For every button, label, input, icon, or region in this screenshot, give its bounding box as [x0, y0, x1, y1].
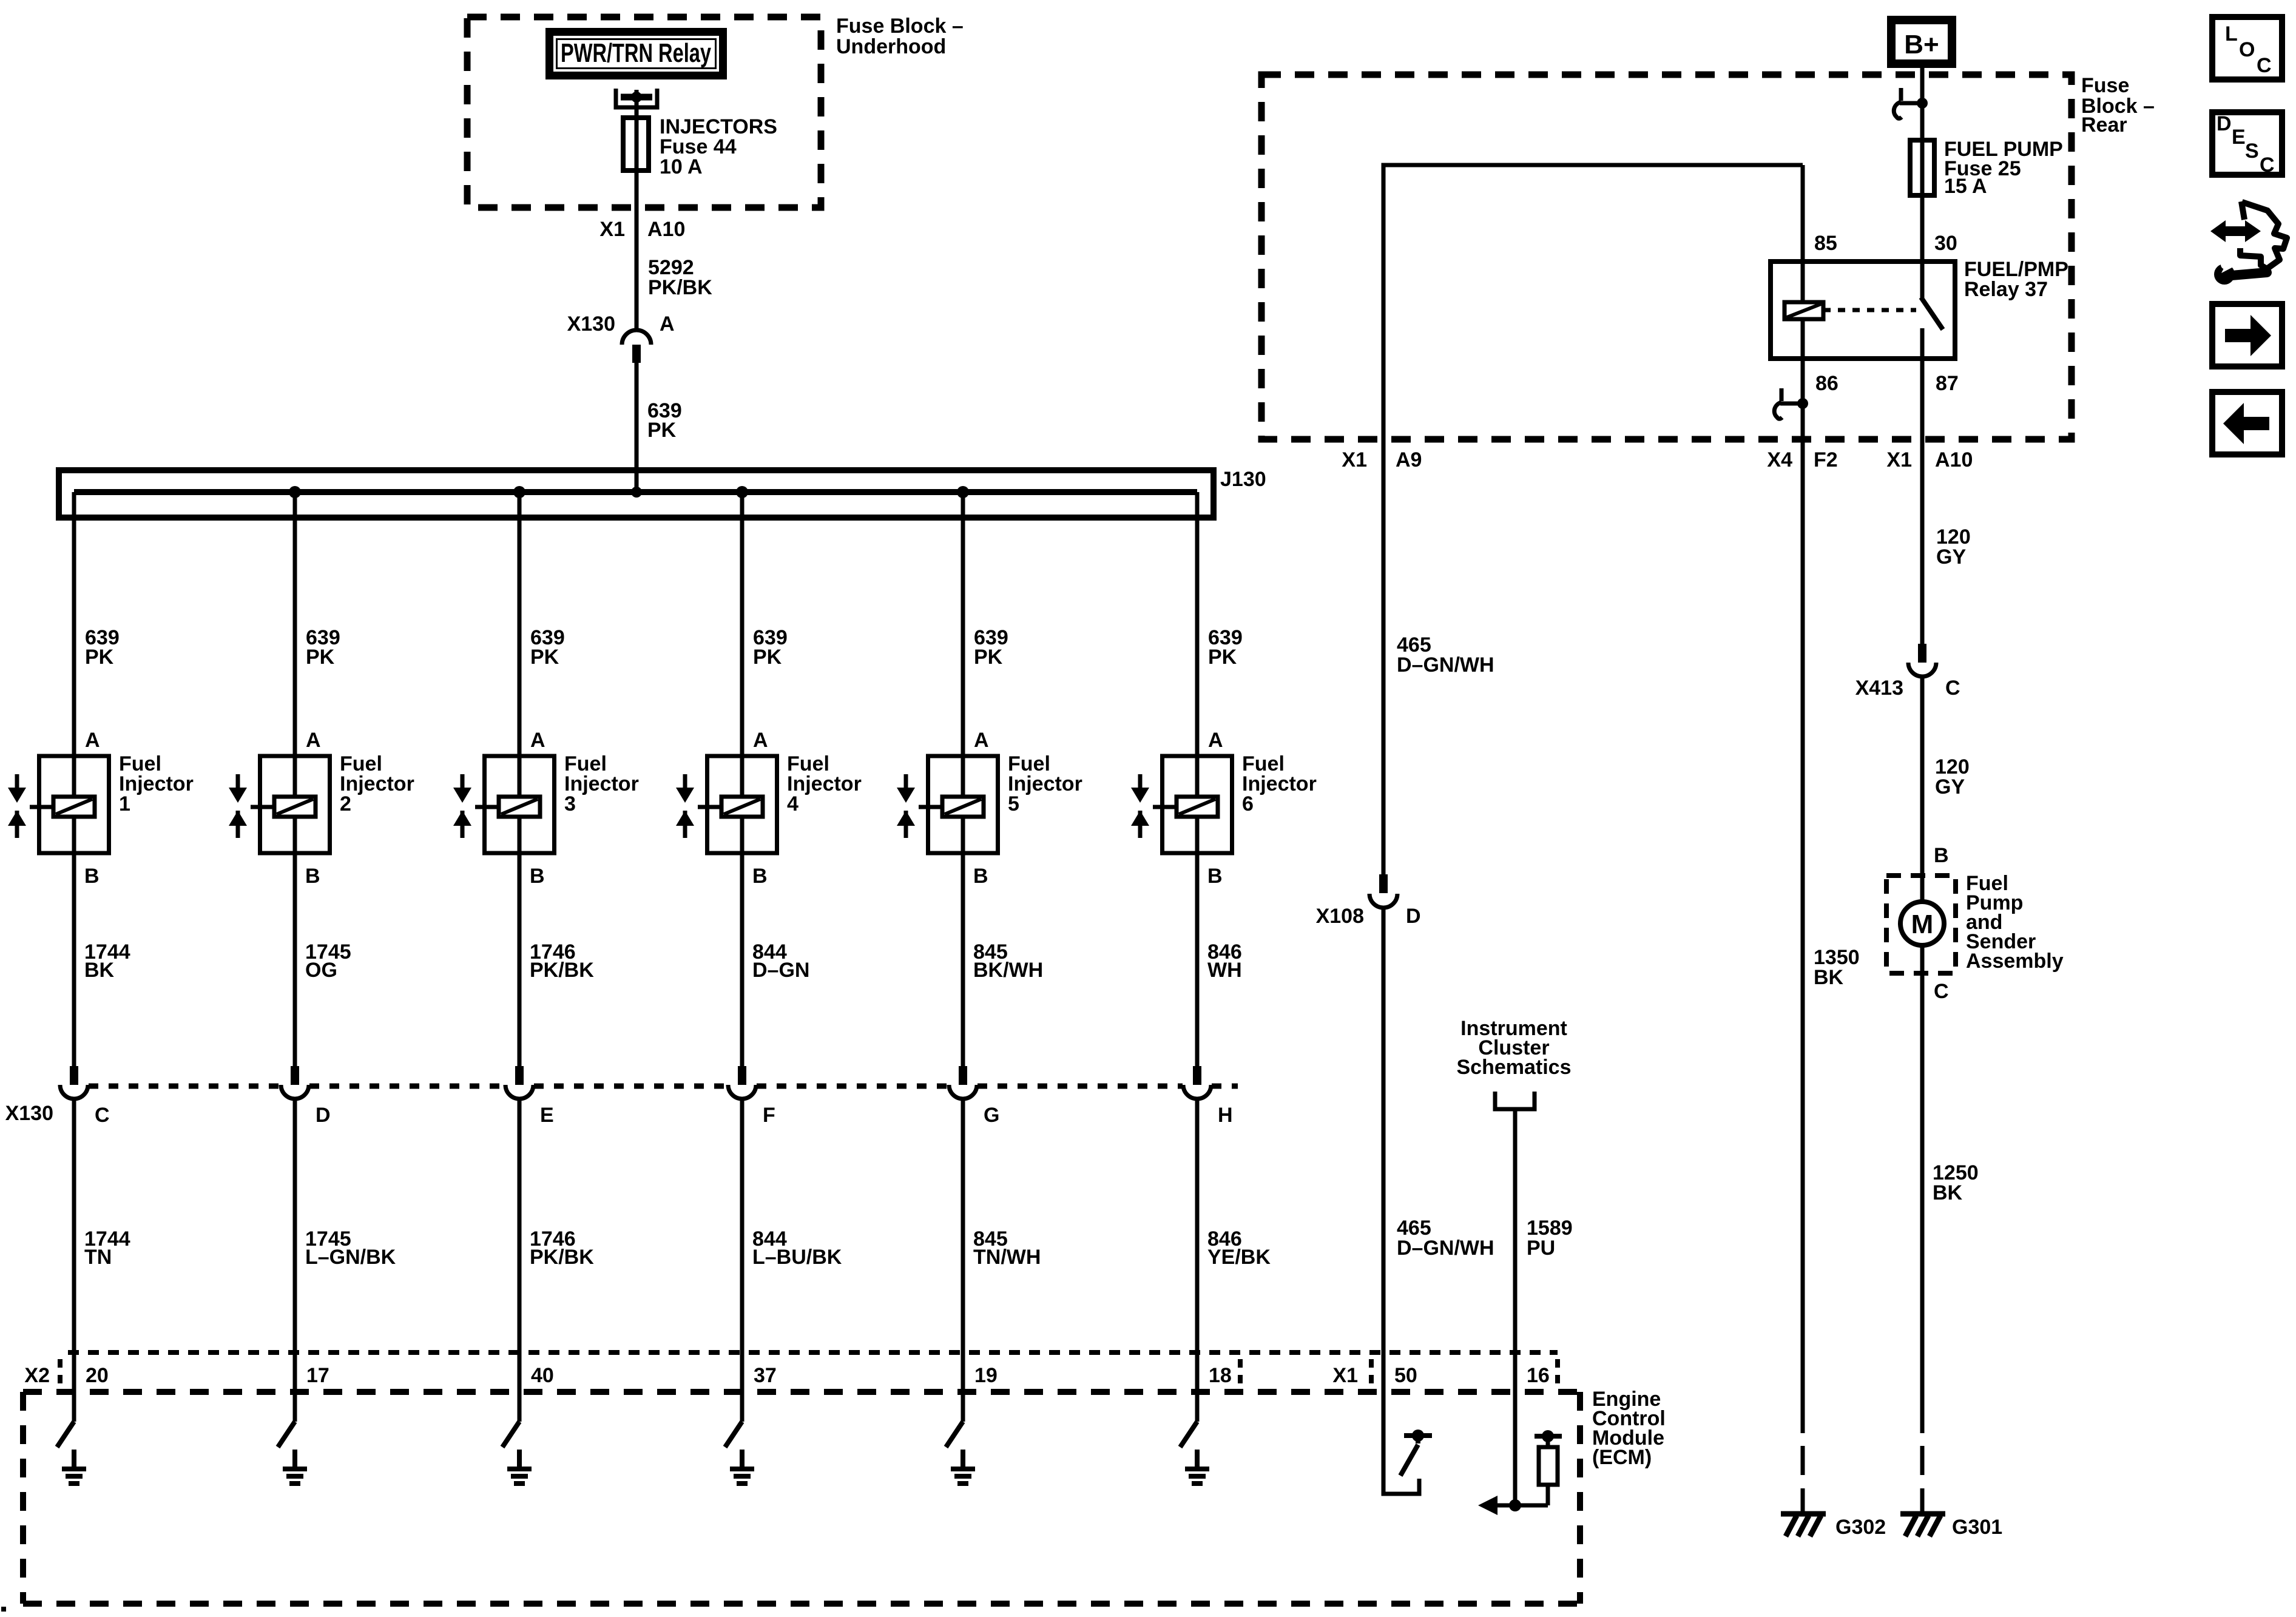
wire 639 PK to injector 2 [293, 492, 297, 1066]
clip symbol at pin 86 [1774, 388, 1803, 419]
wire label 1250 BK [1933, 1161, 1979, 1204]
svg-text:X1: X1 [1332, 1364, 1358, 1387]
label FUEL/PMP Relay 37 [1964, 258, 2068, 301]
svg-text:PK: PK [530, 646, 559, 669]
svg-text:PK: PK [1208, 646, 1237, 669]
svg-text:PK: PK [306, 646, 335, 669]
svg-text:D–GN/WH: D–GN/WH [1397, 653, 1494, 677]
wire label 844 L–BU/BK [752, 1227, 842, 1269]
junction dot bus tap x=856 [513, 486, 525, 498]
svg-text:10 A: 10 A [660, 155, 703, 178]
svg-text:D: D [2217, 112, 2232, 135]
svg-text:PK/BK: PK/BK [530, 1246, 594, 1269]
svg-text:L: L [2225, 22, 2238, 46]
ground symbol inside ECM 5 [951, 1450, 975, 1484]
svg-text:A: A [306, 729, 321, 752]
svg-text:X1: X1 [1886, 448, 1912, 471]
injector 5 coil [942, 797, 984, 817]
svg-text:Underhood: Underhood [836, 35, 946, 58]
icon arrow right box [2212, 304, 2282, 366]
connector X130 pin H [1183, 1066, 1211, 1099]
fuse block underhood dashed box [467, 17, 821, 208]
injector 1 coil [53, 797, 95, 817]
svg-text:C: C [95, 1104, 110, 1127]
svg-text:G302: G302 [1835, 1516, 1886, 1539]
svg-text:3: 3 [564, 792, 576, 815]
svg-text:X1: X1 [599, 218, 625, 241]
connector X130 dashed line [89, 1084, 1238, 1089]
svg-text:X4: X4 [1767, 448, 1792, 471]
ground symbol inside ECM 3 [507, 1450, 532, 1484]
ECM pin row tick x=2044 [1238, 1359, 1243, 1391]
wire relay pin 86 to ground [1801, 319, 1805, 1433]
svg-text:X2: X2 [24, 1364, 50, 1387]
svg-text:WH: WH [1207, 959, 1242, 982]
junction dot driver bar [1412, 1430, 1424, 1442]
svg-text:L–BU/BK: L–BU/BK [752, 1246, 842, 1269]
connector X130 pin D [281, 1066, 309, 1099]
wire label 1744 BK [84, 940, 130, 982]
injector 2 valve symbol [229, 774, 274, 838]
svg-text:C: C [2257, 54, 2272, 77]
wire 465 into ECM pin 50 [1383, 908, 1419, 1494]
svg-text:PK/BK: PK/BK [530, 959, 594, 982]
svg-text:H: H [1218, 1104, 1233, 1127]
dashed wire end G302 [1801, 1446, 1805, 1515]
wire to ECM pin 18 [1195, 1099, 1200, 1422]
svg-text:87: 87 [1936, 372, 1959, 395]
wire label 846 YE/BK [1207, 1227, 1271, 1269]
wire to ECM pin 20 [72, 1099, 76, 1422]
clip symbol at B+ feed [1894, 88, 1922, 118]
relay switch blade [1921, 297, 1943, 329]
dashed wire end G301 [1920, 1446, 1925, 1515]
wire relay pin 87 [1920, 328, 1925, 644]
icon wiring repair (arrow + outline + wrench) [2210, 201, 2287, 285]
wire to ECM pin 37 [740, 1099, 745, 1422]
wire label 845 TN/WH [973, 1227, 1041, 1269]
resistor inside ECM [1539, 1436, 1558, 1505]
svg-text:PK: PK [753, 646, 782, 669]
svg-text:19: 19 [974, 1364, 998, 1387]
connector X130 pin C [60, 1066, 88, 1099]
motor M fuel pump [1900, 902, 1944, 945]
svg-text:A9: A9 [1396, 448, 1422, 471]
label Fuel Pump and Sender Assembly [1966, 872, 2064, 973]
svg-text:86: 86 [1815, 372, 1838, 395]
label Fuel Injector 2 [340, 752, 414, 815]
svg-text:TN: TN [84, 1246, 112, 1269]
wire B+ to fuse 25 [1920, 68, 1925, 262]
junction dot pin 86 clip [1797, 398, 1808, 409]
svg-text:(ECM): (ECM) [1592, 1446, 1652, 1469]
svg-text:GY: GY [1936, 545, 1966, 569]
svg-text:2: 2 [340, 792, 351, 815]
svg-text:A: A [974, 729, 989, 752]
svg-text:B: B [84, 865, 100, 888]
svg-text:Fuse: Fuse [2081, 74, 2129, 97]
svg-text:L–GN/BK: L–GN/BK [305, 1246, 396, 1269]
svg-text:A: A [530, 729, 545, 752]
wire label 846 WH [1207, 940, 1242, 982]
svg-text:Assembly: Assembly [1966, 950, 2064, 973]
ECM pin row tick x=2567 [1555, 1359, 1560, 1391]
svg-text:M: M [1911, 910, 1934, 939]
fuel pump dashed box [1886, 876, 1956, 973]
connector X108 pin D [1369, 874, 1397, 908]
injector 6 valve symbol [1131, 774, 1177, 838]
svg-text:X108: X108 [1316, 905, 1364, 928]
wire to ECM pin 19 [961, 1099, 965, 1422]
label X413 C [1855, 677, 1960, 700]
ground symbol inside ECM 2 [283, 1450, 307, 1484]
fuel injector 2 box [260, 756, 330, 853]
label fuse 44 value [660, 115, 777, 178]
svg-text:BK/WH: BK/WH [973, 959, 1043, 982]
svg-text:PU: PU [1527, 1237, 1555, 1260]
wire label 639 PK [647, 399, 682, 442]
fuel injector 4 box [707, 756, 777, 853]
fuse holder bar [621, 94, 652, 101]
wire label 1746 PK/BK [530, 940, 594, 982]
wire label 1350 BK [1814, 946, 1860, 989]
svg-text:A: A [85, 729, 100, 752]
junction dot sender bar [1542, 1430, 1554, 1442]
ECM dashed box [23, 1392, 1580, 1604]
wire 639 PK to injector 6 [1195, 492, 1200, 1066]
svg-text:A10: A10 [1935, 448, 1973, 471]
svg-text:D–GN: D–GN [752, 959, 809, 982]
relay pin labels 85 30 [1814, 232, 1957, 255]
svg-text:20: 20 [86, 1364, 109, 1387]
svg-text:E: E [540, 1104, 554, 1127]
junction dot fuse feed [631, 92, 642, 103]
relay K: PWR/TRN Relay box [550, 32, 723, 76]
fuse holder bracket [616, 89, 657, 107]
pin labels X4 F2 X1 A10 [1767, 448, 1973, 471]
svg-text:A: A [660, 312, 675, 336]
wire to ECM pin 17 [293, 1099, 297, 1422]
svg-text:C: C [1945, 677, 1960, 700]
wire label 845 BK/WH [973, 940, 1043, 982]
svg-text:D–GN/WH: D–GN/WH [1397, 1237, 1494, 1260]
svg-text:G: G [984, 1104, 999, 1127]
svg-text:PK: PK [85, 646, 114, 669]
svg-text:BK: BK [84, 959, 115, 982]
ECM driver switch blade [1400, 1436, 1418, 1476]
svg-text:F2: F2 [1814, 448, 1838, 471]
bus wire J130 [74, 489, 1197, 495]
svg-text:B: B [530, 865, 545, 888]
svg-text:40: 40 [531, 1364, 554, 1387]
wire label 639 PK col 4 [753, 626, 788, 669]
ground symbol inside ECM 6 [1185, 1450, 1209, 1484]
connector X130 pin A [622, 330, 651, 363]
pin label X1 A9 [1342, 448, 1422, 471]
svg-text:G301: G301 [1952, 1516, 2002, 1539]
ECM driver switch 4 [725, 1422, 742, 1447]
ECM driver switch 3 [502, 1422, 519, 1447]
svg-text:D: D [1406, 905, 1421, 928]
fuel injector 5 box [928, 756, 998, 853]
off-page connector bracket [1495, 1092, 1535, 1109]
ECM pin row tick x=2260 [1369, 1359, 1374, 1391]
arrow head left [1478, 1496, 1497, 1515]
wire relay pin 30 [1920, 195, 1925, 299]
fuse block rear dashed box [1261, 75, 2071, 439]
ground symbol inside ECM 4 [730, 1450, 754, 1484]
ECM pin row tick x=99 [58, 1359, 62, 1391]
svg-text:C: C [1934, 980, 1949, 1003]
svg-text:PK: PK [974, 646, 1003, 669]
wire 1589 into ECM pin 16 [1513, 1111, 1518, 1505]
svg-text:A: A [1208, 729, 1223, 752]
injector 1 valve symbol [8, 774, 53, 838]
ECM fuel pump relay driver bar [1404, 1433, 1432, 1438]
svg-text:50: 50 [1394, 1364, 1417, 1387]
label Fuse Block Underhood [836, 15, 964, 58]
svg-text:5: 5 [1008, 792, 1019, 815]
injector 2 coil [274, 797, 316, 817]
relay coil [1784, 302, 1823, 319]
pin label X1 A10 (underhood) [599, 218, 685, 241]
svg-text:4: 4 [787, 792, 799, 815]
injector 6 coil [1177, 797, 1218, 817]
label Fuel Injector 6 [1242, 752, 1317, 815]
wire label 1746 PK/BK [530, 1227, 594, 1269]
wire coil pin 85 [1801, 165, 1805, 303]
svg-text:J130: J130 [1220, 468, 1266, 491]
wire 639 PK feed to bus [635, 363, 639, 492]
label Fuel Injector 5 [1008, 752, 1082, 815]
wire label 465 D-GN/WH upper [1397, 633, 1494, 677]
svg-text:B: B [305, 865, 320, 888]
svg-text:E: E [2232, 126, 2246, 149]
svg-text:YE/BK: YE/BK [1207, 1246, 1271, 1269]
ground symbol inside ECM 1 [62, 1450, 86, 1484]
junction dot bus tap x=486 [289, 486, 301, 498]
wire label 1744 TN [84, 1227, 130, 1269]
svg-text:PK: PK [647, 419, 677, 442]
wire 639 PK to injector 5 [961, 492, 965, 1066]
injector 4 coil [721, 797, 763, 817]
icon DESC box [2212, 112, 2282, 177]
wire label 844 D–GN [752, 940, 809, 982]
wire label 5292 PK/BK [648, 256, 712, 299]
svg-text:GY: GY [1935, 775, 1965, 798]
svg-text:Schematics: Schematics [1457, 1056, 1572, 1079]
svg-text:BK: BK [1933, 1181, 1963, 1204]
wire X413 to pump [1920, 677, 1925, 902]
label Engine Control Module (ECM) [1592, 1388, 1666, 1469]
svg-text:1: 1 [119, 792, 130, 815]
wire label 120 GY lower [1935, 755, 1970, 798]
fuse F44: INJECTORS Fuse 44 10A [623, 118, 649, 170]
label Fuse Block Rear [2081, 74, 2155, 137]
fuel injector 1 box [39, 756, 109, 853]
wire fuse44 feed [635, 90, 639, 330]
chassis ground G301 [1900, 1514, 1945, 1536]
svg-text:16: 16 [1527, 1364, 1550, 1387]
svg-text:PK/BK: PK/BK [648, 276, 712, 299]
wire 639 PK to injector 1 [72, 492, 76, 1066]
wire label 1589 PU [1527, 1217, 1573, 1260]
junction dot pin16 [1509, 1499, 1521, 1511]
icon arrow left box [2212, 392, 2282, 454]
svg-text:Rear: Rear [2081, 113, 2127, 137]
connector X130 pin E [505, 1066, 533, 1099]
injector 4 valve symbol [676, 774, 721, 838]
svg-text:C: C [2260, 154, 2275, 177]
wire label 639 PK col 5 [974, 626, 1008, 669]
wire pump to G301 [1920, 945, 1925, 1433]
ECM sender signal bar [1535, 1434, 1562, 1439]
svg-text:B: B [752, 865, 768, 888]
junction dot B+ clip [1917, 98, 1928, 109]
svg-text:TN/WH: TN/WH [973, 1246, 1041, 1269]
ECM driver switch 2 [278, 1422, 295, 1447]
wire 639 PK to injector 4 [740, 492, 745, 1066]
power feed B+ box [1891, 20, 1952, 64]
injector 5 valve symbol [897, 774, 942, 838]
svg-text:O: O [2239, 38, 2255, 61]
ECM driver switch 1 [57, 1422, 74, 1447]
svg-text:18: 18 [1209, 1364, 1232, 1387]
wire to arrow [1484, 1504, 1548, 1508]
wire 639 PK to injector 3 [518, 492, 522, 1066]
junction dot bus feed [631, 487, 642, 498]
page artifact dot [1, 1607, 6, 1612]
ECM driver switch 5 [946, 1422, 963, 1447]
label X130 A [567, 312, 675, 336]
svg-text:X413: X413 [1855, 677, 1903, 700]
svg-text:OG: OG [305, 959, 337, 982]
wire label 465 D-GN/WH lower [1397, 1217, 1494, 1260]
wire label 639 PK col 6 [1208, 626, 1243, 669]
label Fuel Injector 3 [564, 752, 639, 815]
svg-text:X130: X130 [5, 1102, 53, 1125]
junction dot bus tap x=1587 [957, 486, 969, 498]
svg-text:PWR/TRN Relay: PWR/TRN Relay [561, 38, 711, 68]
fuel injector 6 box [1163, 756, 1232, 853]
label Fuel Injector 4 [787, 752, 862, 815]
label Fuel Injector 1 [119, 752, 194, 815]
svg-text:Fuse Block –: Fuse Block – [836, 15, 964, 38]
ECM pin row dotted line [68, 1350, 1558, 1355]
label fuse 25 value [1944, 138, 2063, 198]
fuel injector 3 box [485, 756, 555, 853]
svg-text:X130: X130 [567, 312, 615, 336]
svg-text:S: S [2245, 140, 2259, 163]
svg-text:37: 37 [754, 1364, 777, 1387]
svg-text:85: 85 [1814, 232, 1837, 255]
svg-text:6: 6 [1242, 792, 1254, 815]
svg-text:30: 30 [1934, 232, 1957, 255]
wire label 639 PK col 1 [85, 626, 120, 669]
svg-text:17: 17 [306, 1364, 329, 1387]
svg-text:A10: A10 [647, 218, 685, 241]
junction dot bus tap x=1223 [736, 486, 748, 498]
connector X413 pin C [1908, 644, 1936, 677]
icon LOC box [2212, 17, 2282, 79]
wire to ECM pin 40 [518, 1099, 522, 1422]
wire 465 D-GN/WH from A9 [1383, 165, 1803, 874]
wire label 1745 L–GN/BK [305, 1227, 396, 1269]
svg-text:X1: X1 [1342, 448, 1367, 471]
svg-text:F: F [763, 1104, 775, 1127]
connector X130 pin G [949, 1066, 977, 1099]
connector X130 pin F [728, 1066, 756, 1099]
svg-text:B+: B+ [1904, 30, 1939, 59]
label Instrument Cluster Schematics [1457, 1017, 1572, 1079]
wire label 1745 OG [305, 940, 351, 982]
relay K37: FUEL/PMP Relay 37 box [1771, 262, 1955, 359]
wire label 639 PK col 2 [306, 626, 340, 669]
injector 3 coil [499, 797, 540, 817]
svg-text:B: B [973, 865, 988, 888]
svg-text:BK: BK [1814, 966, 1844, 989]
chassis ground G302 [1781, 1514, 1826, 1536]
svg-text:A: A [753, 729, 768, 752]
relay pin labels 86 87 [1815, 372, 1959, 395]
svg-text:15 A: 15 A [1944, 175, 1987, 198]
svg-text:B: B [1207, 865, 1223, 888]
splice pack J130 outer box [59, 470, 1214, 518]
injector 3 valve symbol [453, 774, 499, 838]
wire label 120 GY upper [1936, 525, 1971, 569]
svg-text:Relay 37: Relay 37 [1964, 278, 2048, 301]
wire label 639 PK col 3 [530, 626, 565, 669]
fuse F25: FUEL PUMP Fuse 25 15A [1910, 140, 1934, 195]
relay internal dashed link [1823, 308, 1916, 312]
label X108 D [1316, 905, 1421, 928]
svg-text:B: B [1934, 844, 1949, 867]
svg-text:D: D [316, 1104, 331, 1127]
ECM driver switch 6 [1180, 1422, 1197, 1447]
